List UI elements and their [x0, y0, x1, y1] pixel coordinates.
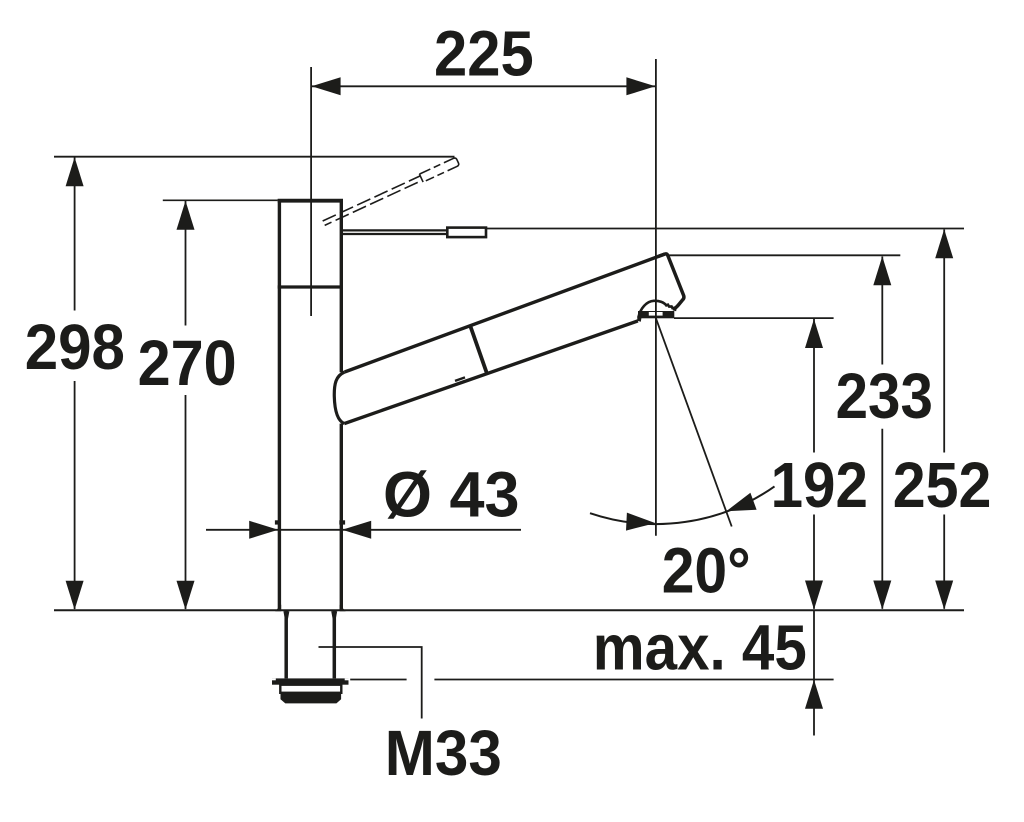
shank right edge — [333, 611, 337, 678]
dimension line diameter 43 — [206, 529, 521, 531]
body base fillet right — [340, 605, 346, 612]
mounting flange notch right — [345, 678, 349, 680]
mounting flange — [272, 678, 349, 684]
lever rod bottom line — [343, 233, 447, 235]
arrowhead 270 down — [177, 581, 195, 610]
arrowhead angle arc upper — [726, 493, 756, 511]
arrowhead angle arc east — [626, 513, 655, 531]
arrowhead 192 up — [805, 319, 823, 348]
dimension line 252 lower segment — [943, 515, 945, 609]
dimension line 233 upper segment — [881, 257, 883, 365]
shank top fillet right — [331, 611, 337, 619]
spout tube left cap — [334, 372, 344, 424]
extension line 192 — [674, 317, 834, 319]
arrowhead 298 up — [66, 157, 84, 186]
outlet plate — [638, 311, 674, 318]
spout vertical reference line — [655, 312, 657, 536]
faucet body right edge upper — [340, 201, 343, 372]
max45 lower line left segment — [350, 679, 406, 681]
svg-text:233: 233 — [836, 360, 933, 432]
arrowhead 252 up — [935, 229, 953, 258]
aerator dome — [638, 301, 676, 318]
svg-text:M33: M33 — [385, 717, 502, 789]
dimension line 252 upper segment — [943, 230, 945, 453]
dimension line 192 upper segment — [813, 319, 815, 453]
tick mark right body edge — [339, 520, 345, 524]
angle arc 20 deg — [590, 486, 775, 524]
arrowhead 225 left — [312, 77, 341, 95]
dimension line max45 below counter — [813, 611, 815, 736]
arrowhead diameter43 right — [342, 521, 371, 539]
faucet body separation line — [278, 285, 343, 288]
arrowhead 233 down — [873, 581, 891, 610]
tick mark left body edge — [275, 520, 281, 524]
leader line M33 — [319, 647, 422, 719]
dimension line 298 lower segment — [74, 381, 76, 609]
lever grip — [447, 228, 486, 238]
counter top line — [54, 609, 964, 611]
dimension line 192 lower segment — [813, 515, 815, 609]
body base fillet left — [275, 605, 281, 612]
shank left edge — [284, 611, 288, 678]
lever rod top line — [343, 229, 447, 231]
spout tube bottom edge — [344, 321, 638, 424]
extension line right of 225 upper part — [655, 59, 657, 312]
raised handle dashed — [322, 157, 460, 227]
spray head joint line — [470, 326, 487, 374]
angle reference line 20 deg — [656, 318, 732, 526]
svg-text:max. 45: max. 45 — [593, 612, 807, 684]
svg-text:252: 252 — [893, 449, 992, 521]
locknut ring — [280, 685, 341, 693]
arrowhead 233 up — [873, 256, 891, 285]
dimension line 233 lower segment — [881, 429, 883, 609]
arrowhead 298 down — [66, 581, 84, 610]
wire top extension line 298 — [54, 156, 455, 158]
dimension line 270 upper segment — [185, 201, 187, 326]
svg-text:225: 225 — [434, 17, 534, 89]
dimension line 225 — [311, 85, 656, 87]
arrowhead max45 up — [805, 680, 823, 709]
mounting flange notch left — [272, 678, 276, 680]
spout tube top edge — [345, 254, 665, 372]
extension line left of 225 / faucet centre line — [310, 67, 312, 316]
faucet body top cap — [278, 199, 343, 203]
svg-text:298: 298 — [25, 311, 125, 383]
svg-text:20°: 20° — [662, 535, 751, 607]
arrowhead 270 up — [177, 201, 195, 230]
arrowhead 225 right — [626, 77, 655, 95]
svg-text:270: 270 — [138, 327, 237, 399]
shank bottom cap — [281, 694, 342, 703]
spray hose seam tick — [455, 377, 465, 381]
svg-text:192: 192 — [771, 449, 868, 521]
shank top fillet left — [283, 611, 289, 619]
extension line 233 — [666, 254, 900, 256]
arrowhead diameter43 left — [249, 521, 278, 539]
max45 lower line right segment — [434, 679, 833, 681]
extension line 270 — [163, 199, 278, 201]
outlet plate left lip — [637, 317, 641, 322]
faucet body right edge lower — [340, 424, 343, 610]
dimension line 270 lower segment — [185, 395, 187, 609]
faucet body left edge — [278, 199, 281, 610]
spout head end face — [658, 254, 684, 311]
dimension line 298 upper segment — [74, 158, 76, 311]
aerator insert — [649, 312, 663, 316]
svg-text:Ø 43: Ø 43 — [383, 459, 520, 531]
extension line 252 — [487, 228, 964, 230]
arrowhead 252 down — [935, 581, 953, 610]
arrowhead 192 down — [805, 581, 823, 610]
